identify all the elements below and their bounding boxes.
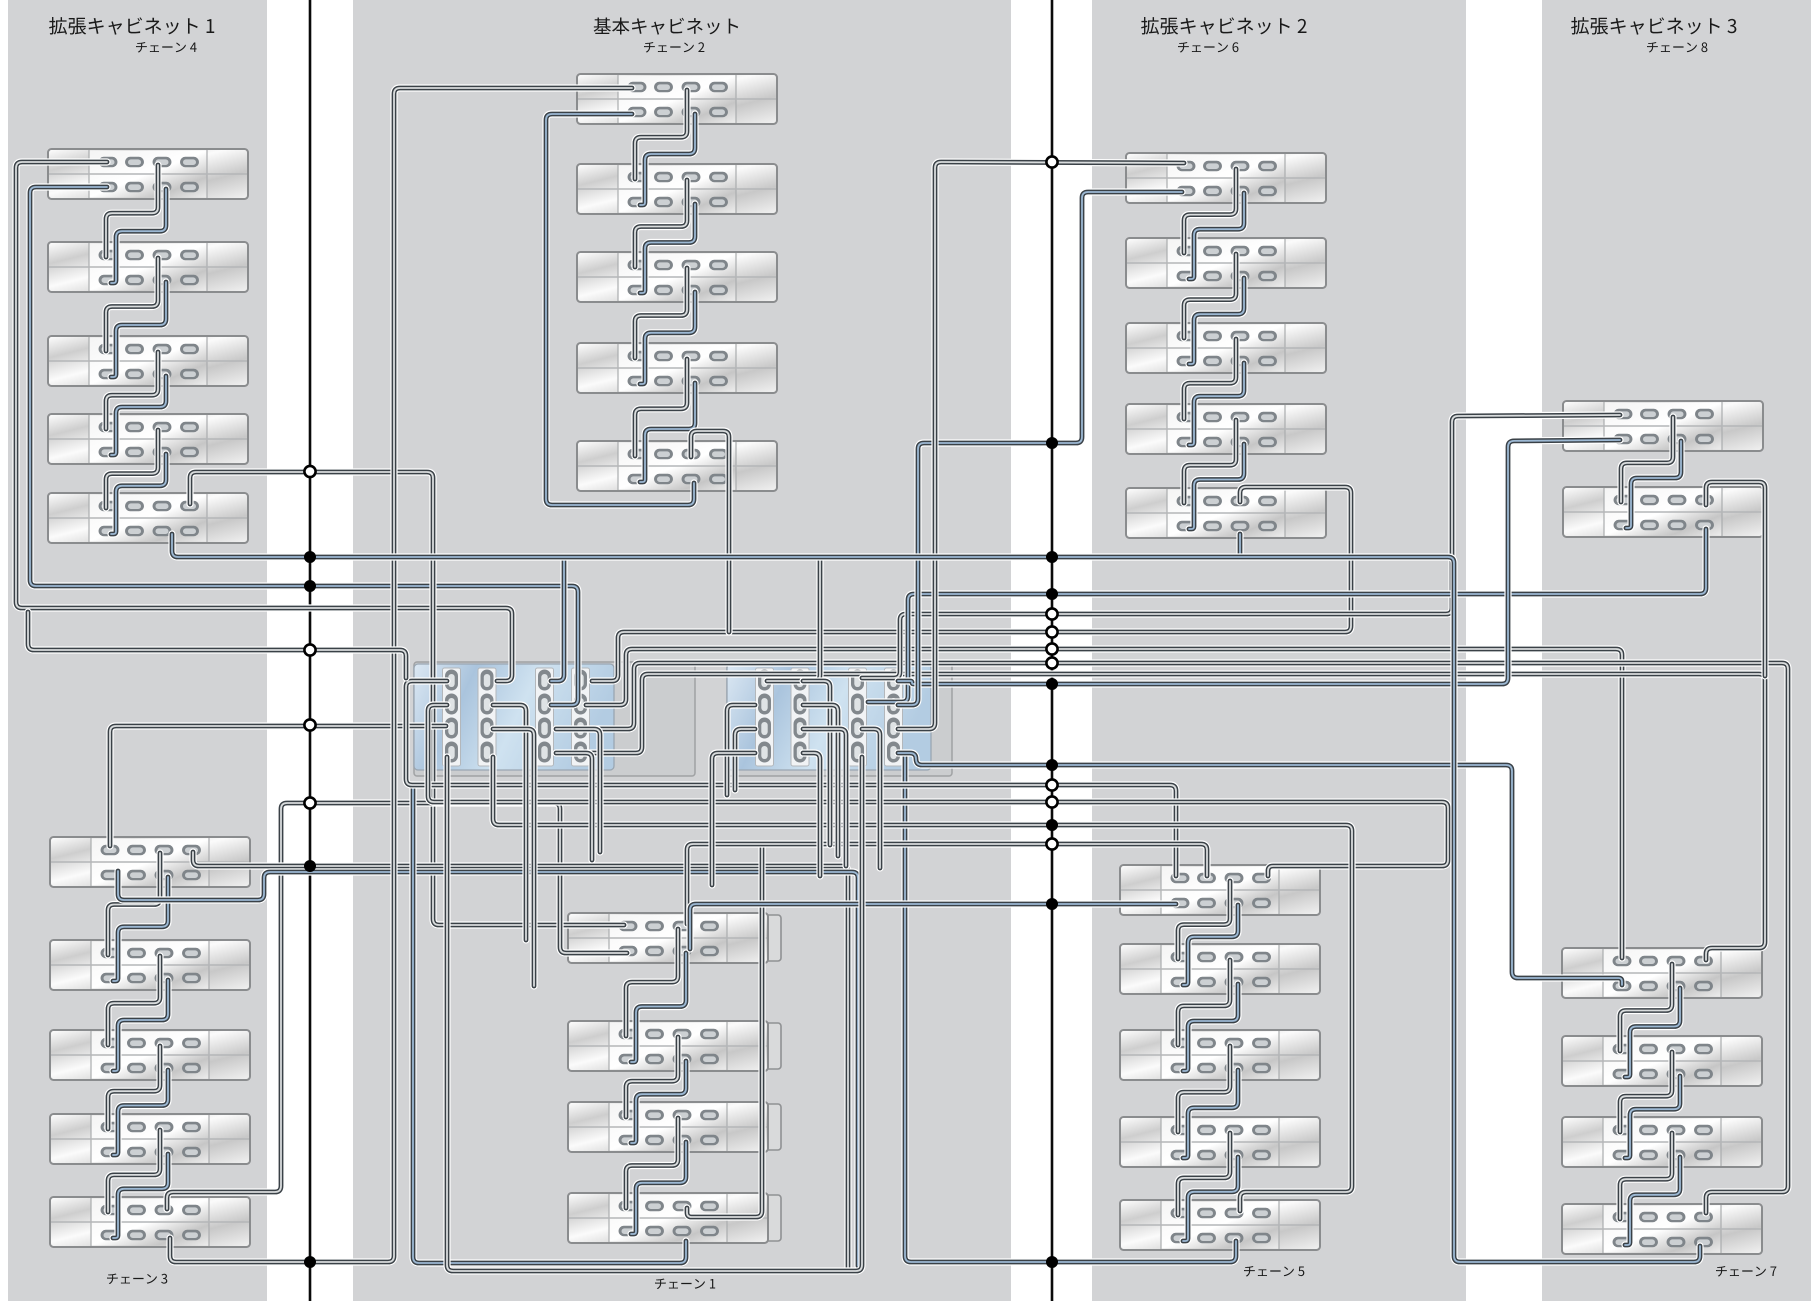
disk shelf chain2 shelf 4 <box>577 343 777 393</box>
junction open dot at 1052,663 <box>1046 657 1057 668</box>
text: cabinet 1 title <box>49 17 67 34</box>
storage controller 1 chassis <box>414 662 695 776</box>
text: chain 2 label <box>644 42 655 53</box>
junction filled dot at 1052,557 <box>1046 551 1058 563</box>
disk shelf chain1 shelf 3 <box>568 1102 781 1152</box>
disk shelf chain4 shelf 5 <box>48 493 248 543</box>
junction open dot at 310,471.5 <box>304 466 315 477</box>
disk shelf chain2 shelf 5 <box>577 441 777 491</box>
disk shelf chain5 shelf 5 <box>1120 1200 1320 1250</box>
disk shelf chain4 shelf 4 <box>48 414 248 464</box>
disk shelf chain1 shelf 2 <box>568 1021 781 1071</box>
junction open dot at 310,803 <box>304 797 315 808</box>
cabinet panel 4 (expansion cabinet 3) <box>1542 0 1811 1301</box>
disk shelf chain3 shelf 1 <box>50 837 250 887</box>
text: chain 3 label <box>107 1274 118 1285</box>
disk shelf chain5 shelf 4 <box>1120 1117 1320 1167</box>
junction filled dot at 310,866 <box>304 860 316 872</box>
junction filled dot at 1052,904 <box>1046 898 1058 910</box>
disk shelf chain8 shelf 1 <box>1563 401 1763 451</box>
text: chain 5 label <box>1244 1266 1255 1277</box>
disk shelf chain6 shelf 1 <box>1126 153 1326 203</box>
disk shelf chain1 shelf 1 <box>568 913 781 963</box>
disk shelf chain6 shelf 3 <box>1126 323 1326 373</box>
cabinet panel 1 (expansion cabinet 1) <box>8 0 267 1301</box>
disk shelf chain2 shelf 3 <box>577 252 777 302</box>
junction filled dot at 1052,443 <box>1046 437 1058 449</box>
junction open dot at 1052,844 <box>1046 838 1057 849</box>
text: cabinet 2 title <box>1141 17 1159 34</box>
text: chain 4 label <box>136 42 147 53</box>
disk shelf chain3 shelf 5 <box>50 1197 250 1247</box>
junction open dot at 1052,162 <box>1046 156 1057 167</box>
disk shelf chain4 shelf 2 <box>48 242 248 292</box>
disk shelf chain5 shelf 2 <box>1120 944 1320 994</box>
junction open dot at 1052,632 <box>1046 626 1057 637</box>
disk shelf chain3 shelf 4 <box>50 1114 250 1164</box>
disk shelf chain2 shelf 2 <box>577 164 777 214</box>
junction open dot at 1052,802 <box>1046 796 1057 807</box>
disk shelf chain7 shelf 3 <box>1562 1117 1762 1167</box>
cabinet panel 3 (expansion cabinet 2) <box>1092 0 1466 1301</box>
junction open dot at 1052,785 <box>1046 779 1057 790</box>
disk shelf chain3 shelf 3 <box>50 1030 250 1080</box>
storage controller 1 HBA panel <box>414 664 614 770</box>
vertical divider line right <box>1051 0 1054 1301</box>
junction filled dot at 1052,825 <box>1046 819 1058 831</box>
disk shelf chain8 shelf 2 <box>1563 487 1763 537</box>
disk shelf chain4 shelf 1 <box>48 149 248 199</box>
junction filled dot at 1052,684 <box>1046 678 1058 690</box>
text: cabinet 3 title <box>1571 17 1589 34</box>
disk shelf chain3 shelf 2 <box>50 940 250 990</box>
junction open dot at 310,725 <box>304 719 315 730</box>
disk shelf chain4 shelf 3 <box>48 336 248 386</box>
junction filled dot at 310,586 <box>304 580 316 592</box>
disk shelf chain5 shelf 1 <box>1120 865 1320 915</box>
disk shelf chain7 shelf 1 <box>1562 948 1762 998</box>
disk shelf chain6 shelf 5 <box>1126 488 1326 538</box>
storage controller 2 HBA panel <box>727 664 931 770</box>
junction filled dot at 1052,1262 <box>1046 1256 1058 1268</box>
disk shelf chain5 shelf 3 <box>1120 1030 1320 1080</box>
disk shelf chain7 shelf 2 <box>1562 1036 1762 1086</box>
junction open dot at 1052,614 <box>1046 608 1057 619</box>
junction filled dot at 1052,765 <box>1046 759 1058 771</box>
junction open dot at 310,650 <box>304 644 315 655</box>
junction filled dot at 310,557 <box>304 551 316 563</box>
disk shelf chain2 shelf 1 <box>577 74 777 124</box>
junction filled dot at 310,1262 <box>304 1256 316 1268</box>
junction open dot at 1052,649 <box>1046 643 1057 654</box>
cabinet panel 2 (base cabinet) <box>353 0 1011 1301</box>
disk shelf chain1 shelf 4 <box>568 1193 781 1243</box>
storage controller 2 chassis <box>727 662 952 776</box>
vertical divider line left <box>309 0 312 1301</box>
text: chain 7 label <box>1716 1266 1727 1277</box>
disk shelf chain7 shelf 4 <box>1562 1204 1762 1254</box>
text: chain 6 label <box>1178 42 1189 53</box>
junction filled dot at 1052,594 <box>1046 588 1058 600</box>
text: chain 1 label <box>655 1279 666 1290</box>
disk shelf chain6 shelf 4 <box>1126 404 1326 454</box>
text: chain 8 label <box>1647 42 1658 53</box>
text: base cabinet title <box>594 17 611 34</box>
disk shelf chain6 shelf 2 <box>1126 238 1326 288</box>
